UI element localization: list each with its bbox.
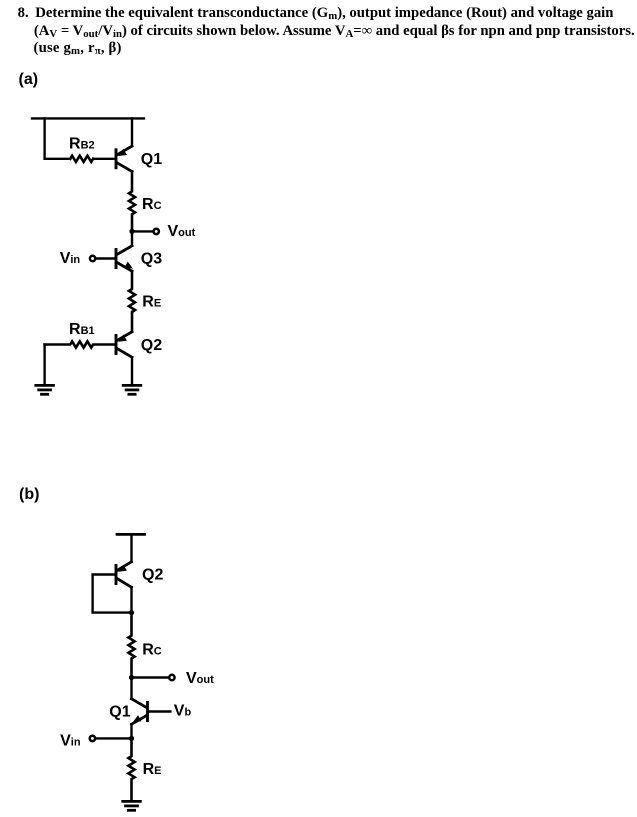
wire: node to Vout terminal	[132, 230, 153, 232]
supply rail (a)	[32, 117, 144, 119]
terminal Vin (b)	[90, 736, 95, 741]
wire: rail left drop	[45, 118, 71, 158]
svg-text:Vin: Vin	[60, 250, 81, 267]
label (b)	[19, 487, 39, 503]
svg-text:Vout: Vout	[186, 670, 214, 687]
svg-text:Q1: Q1	[141, 151, 162, 168]
wire: Q3 collector to node	[131, 231, 133, 245]
wire: node down to Q1 collector	[130, 678, 132, 699]
svg-text:RB1: RB1	[69, 321, 95, 338]
problem statement line 2	[34, 24, 635, 39]
node Vout (a) junction dot	[129, 229, 134, 234]
resistor RB2	[70, 156, 93, 162]
svg-text:RB2: RB2	[69, 135, 95, 152]
node: collector-base junction dot	[129, 610, 134, 615]
resistor RB1 with leads	[45, 341, 115, 347]
ground (b)	[123, 801, 141, 810]
transistor Q1 (npn, mirrored)	[132, 699, 148, 724]
terminal Vout (a)	[154, 229, 159, 234]
wire: rail to Q2 emitter	[130, 534, 132, 561]
problem statement line 3	[34, 41, 122, 56]
svg-text:Q1: Q1	[109, 704, 130, 721]
resistor RC (a) with leads	[129, 172, 135, 232]
svg-text:RC: RC	[142, 642, 162, 659]
label (a)	[19, 72, 39, 88]
svg-text:RE: RE	[142, 294, 161, 311]
svg-text:Q2: Q2	[141, 337, 162, 354]
svg-text:RE: RE	[143, 761, 162, 778]
svg-text:Vout: Vout	[168, 223, 196, 240]
wire: RB1 left drop to ground	[43, 345, 45, 386]
ground (right, a)	[123, 385, 141, 394]
svg-text:Q3: Q3	[141, 251, 162, 268]
wire: Q2 collector down	[130, 587, 132, 612]
node: input junction dot	[129, 736, 134, 741]
transistor Q1 (pnp)	[116, 146, 132, 171]
node Vout (b) junction dot	[129, 675, 134, 680]
svg-text:Vb: Vb	[174, 703, 192, 720]
supply rail (b)	[117, 533, 145, 536]
resistor RC (b) with leads	[128, 613, 134, 678]
transistor Q2 (pnp)	[116, 332, 132, 357]
svg-text:Q2: Q2	[142, 567, 163, 584]
wire: Q1 base to Vb	[149, 710, 171, 712]
ground (left, a)	[36, 385, 54, 394]
transistor Q3 (npn)	[116, 246, 133, 271]
wire: Q1 emitter to rail	[131, 118, 133, 146]
wire: RB2 to Q1 base	[93, 158, 115, 160]
transistor Q2 (pnp, b)	[116, 562, 132, 587]
svg-text:Vin: Vin	[60, 732, 81, 749]
wire: diode-connect loop (base to collector)	[93, 575, 132, 613]
svg-text:RC: RC	[142, 196, 162, 213]
wire: Vin to Q3 base	[96, 257, 115, 259]
wire: Q2 collector to ground	[131, 357, 133, 385]
wire: Vin to input node	[96, 737, 132, 739]
terminal Vout (b)	[169, 675, 174, 680]
terminal Vin (a)	[90, 256, 95, 261]
problem statement line 1	[18, 6, 29, 21]
wire: node to Vout terminal (b)	[132, 676, 169, 678]
resistor RE (a) with leads	[129, 271, 135, 332]
resistor RE (b) with leads	[128, 738, 134, 801]
wire: Q1 emitter down to input node	[130, 724, 132, 738]
